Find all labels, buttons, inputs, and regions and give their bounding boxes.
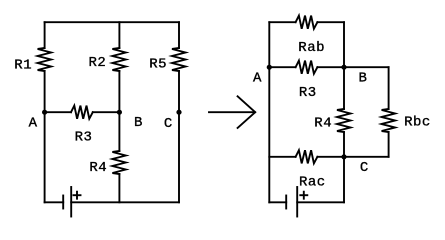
svg-text:R4: R4 — [314, 115, 332, 131]
svg-text:R4: R4 — [89, 160, 107, 176]
svg-text:R2: R2 — [89, 55, 107, 71]
svg-text:R1: R1 — [14, 57, 32, 73]
svg-text:C: C — [360, 160, 369, 176]
svg-text:Rbc: Rbc — [404, 115, 431, 131]
svg-text:A: A — [253, 71, 262, 87]
svg-text:B: B — [134, 115, 143, 131]
svg-text:R3: R3 — [299, 85, 317, 101]
svg-text:B: B — [359, 70, 368, 86]
svg-text:A: A — [29, 116, 38, 132]
svg-text:R3: R3 — [75, 130, 93, 146]
svg-text:C: C — [164, 116, 173, 132]
svg-text:Rac: Rac — [299, 175, 326, 191]
svg-text:R5: R5 — [149, 56, 167, 72]
svg-text:Rab: Rab — [298, 40, 325, 56]
